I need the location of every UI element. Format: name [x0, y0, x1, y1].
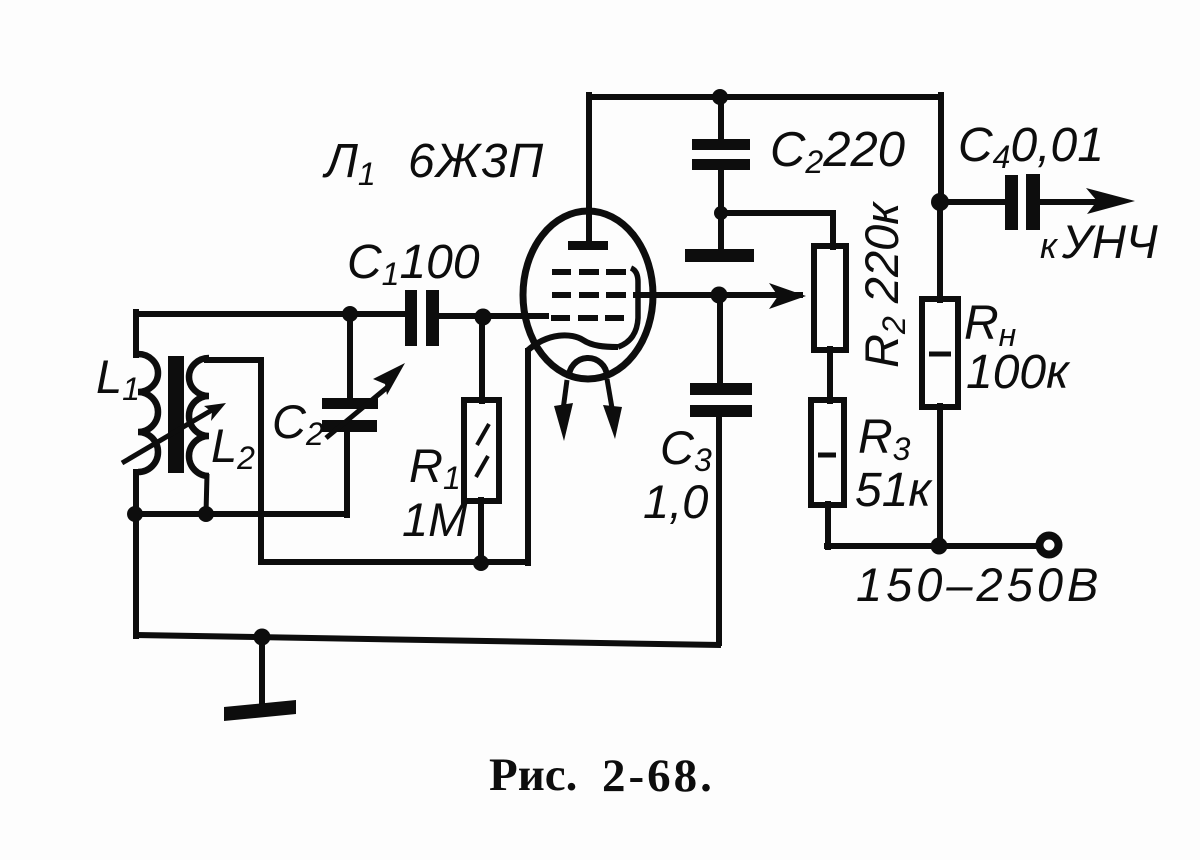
wire R1 bottom lead — [478, 500, 484, 563]
core bar — [168, 356, 184, 473]
svg-text:к: к — [1040, 225, 1059, 266]
wire screen link to R2 — [719, 213, 833, 247]
wire left vertical bottom — [133, 514, 139, 636]
capacitor C3 plates — [690, 383, 752, 417]
heater arrow right — [603, 379, 622, 439]
wire R2-R3 link — [827, 349, 833, 401]
wire C4 node to Rн top — [937, 202, 943, 300]
resistor R1 — [464, 400, 499, 501]
capacitor C1 plates — [405, 290, 439, 346]
capacitor C4 plates — [1005, 174, 1040, 230]
svg-text:L1: L1 — [96, 350, 140, 407]
svg-text:Рис.: Рис. — [489, 749, 577, 801]
wire bottom ground bus — [137, 635, 718, 645]
wire input line right — [437, 313, 546, 319]
svg-text:2-68.: 2-68. — [602, 750, 715, 802]
svg-text:1M: 1M — [402, 493, 468, 546]
anode bar — [568, 241, 608, 250]
wire C2var bottom lead — [344, 430, 350, 515]
grid row 2 — [552, 292, 626, 298]
svg-text:6Ж3П: 6Ж3П — [408, 135, 544, 188]
terminal 150-250V — [1040, 536, 1059, 555]
wire output line — [636, 292, 800, 298]
wire C2 top lead — [718, 97, 724, 140]
svg-text:150–250В: 150–250В — [856, 558, 1102, 611]
wire L1 bottom lead — [133, 472, 139, 514]
grid row 3 — [551, 315, 624, 321]
wire R1 top lead — [479, 317, 485, 401]
wire cathode riser — [525, 351, 531, 563]
ground symbol — [259, 637, 265, 706]
svg-text:C1100: C1100 — [347, 236, 480, 292]
potentiometer R2 — [814, 246, 846, 350]
junction node dots — [127, 89, 949, 646]
wire R3 bottom lead — [825, 504, 831, 547]
svg-text:C2220: C2220 — [770, 123, 905, 180]
wire B+ bus — [827, 543, 1037, 549]
tube U1 envelope — [523, 211, 653, 379]
wire L2 bottom lead — [206, 474, 207, 514]
svg-text:1,0: 1,0 — [643, 475, 708, 528]
coil L2 — [189, 358, 209, 476]
svg-text:100к: 100к — [966, 346, 1071, 399]
heater arrow left — [554, 380, 573, 441]
wire C3 top lead — [717, 295, 723, 384]
output arrow к УНЧ — [1086, 188, 1135, 214]
resistor R3 — [811, 400, 844, 505]
wire top bus — [589, 94, 941, 100]
wire bypass plate lead — [718, 213, 724, 250]
wire anode lead — [586, 95, 592, 243]
output arrowhead into R2 — [769, 283, 806, 309]
screen bypass plate — [685, 249, 754, 262]
wire C2var top lead — [347, 314, 353, 399]
svg-text:R3: R3 — [858, 411, 911, 467]
wire Rн bottom to B+ bus — [937, 406, 943, 546]
resistor Rн — [922, 299, 958, 407]
svg-text:R2 220к: R2 220к — [855, 201, 912, 368]
grid row 1 — [552, 269, 626, 275]
svg-text:R1: R1 — [409, 439, 461, 496]
wire input line left — [136, 311, 406, 317]
svg-text:УНЧ: УНЧ — [1061, 215, 1158, 268]
svg-text:C3: C3 — [660, 421, 712, 478]
svg-text:C40,01: C40,01 — [958, 119, 1104, 175]
heater arc — [569, 358, 607, 378]
svg-text:C2: C2 — [272, 395, 324, 452]
cathode arc — [527, 335, 618, 351]
coil tuning arrow — [122, 403, 226, 463]
capacitor C2 220 plates — [692, 139, 750, 170]
svg-text:Л1: Л1 — [322, 135, 376, 192]
wire right vertical to C4 node — [938, 95, 944, 202]
wire C4 left lead — [940, 199, 1006, 205]
wire L2 top link — [207, 360, 261, 562]
wire C4 right lead — [1039, 199, 1100, 205]
wire left vertical top — [133, 312, 139, 355]
wire C2 bottom lead — [718, 169, 724, 214]
wire cathode bottom line — [261, 559, 528, 565]
cathode riser — [618, 268, 638, 347]
capacitor C2 trimmer arrow — [326, 363, 405, 438]
svg-text:L2: L2 — [211, 419, 255, 476]
coil L1 — [138, 354, 158, 472]
wire C3 bottom lead — [716, 416, 722, 643]
svg-text:51к: 51к — [855, 464, 933, 517]
svg-text:Rн: Rн — [964, 297, 1016, 353]
capacitor C2 (trimmer) plates — [322, 398, 378, 432]
wire tap line y514 — [135, 511, 347, 517]
